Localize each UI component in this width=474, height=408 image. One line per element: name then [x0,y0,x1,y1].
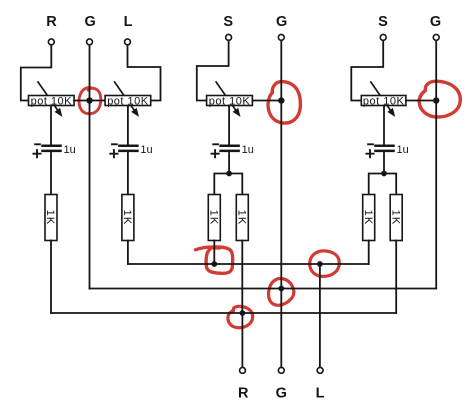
junction dot P4/G3 [433,97,439,103]
svg-text:L: L [316,385,325,401]
resistor R4 1K [236,195,249,241]
annotation red circle 3 (P4/G3 junction) [419,81,460,117]
junction dot C4 split [381,171,387,177]
junction dot P1/P2/G1 [86,97,92,103]
svg-text:1u: 1u [397,144,409,156]
potentiometer P4 pot 10K [361,82,406,117]
wire C2 down to R2 [127,152,129,194]
capacitor C1 1u [33,144,75,157]
wire R to pot P1 left [21,45,52,100]
wire G3 vertical down to ground bus [435,41,437,289]
annotation red circle 2 (P3/G2 junction) [268,82,300,124]
svg-text:1K: 1K [121,210,133,226]
svg-text:S: S [223,14,233,30]
svg-text:L: L [124,14,133,30]
svg-text:1u: 1u [64,144,76,156]
junction dot C3 split [226,171,232,177]
potentiometer P1 pot 10K [29,82,75,117]
wire G2 vertical full down to output G [280,41,282,367]
wire P1 right to junction [74,100,89,102]
potentiometer P3 pot 10K [207,82,253,117]
wire R2 bottom down to bus1 [127,241,129,265]
wire L output down [319,264,321,367]
junction dot P3/G2 [278,97,284,103]
wire P3 right to junction [252,100,281,102]
annotation red circle 6 (G2/bus2 junction) [269,279,294,306]
wire P1 wiper down to C1 [50,106,52,145]
svg-text:1K: 1K [362,210,374,226]
wire C3 down to T junction [228,152,230,173]
wire R5 bottom down to bus1 [368,241,370,265]
resistor R1 1K [44,195,57,241]
wire T bar section 3 [214,174,242,195]
svg-text:1u: 1u [242,144,254,156]
wire R3 bottom down to bus1 [213,241,215,265]
wire P4 right to junction [406,100,436,102]
wire S1 to pot P3 left [197,41,229,101]
svg-text:1u: 1u [140,144,152,156]
junction dot Rout/bus3 [240,310,246,316]
wire junction to pot P2 left [90,100,106,102]
annotation red circle 7 (Rout/bus3 junction) [228,306,253,327]
wire bus2 (ground) [90,288,437,290]
svg-text:S: S [378,14,388,30]
wire S2 to pot P4 left [351,41,383,101]
svg-text:G: G [276,14,287,30]
wire R1 bottom down to bus3 [50,241,52,314]
svg-text:G: G [276,385,287,401]
svg-text:1K: 1K [236,210,248,226]
node G (bottom output) [278,367,284,373]
junction dot R3/bus1 [211,261,217,267]
potentiometer P2 pot 10K [105,82,151,117]
wire L to pot P2 right [128,45,161,100]
annotation red circle 1 (P1/P2/G1 junction) [79,88,101,114]
capacitor C2 1u [110,144,152,157]
svg-text:G: G [430,14,441,30]
wire C1 down to R1 [50,152,52,194]
node L (bottom output) [317,367,323,373]
capacitor C4 1u [366,144,408,157]
wire bus1 (L mix) [128,263,369,265]
junction dot Lout/bus1 [317,261,323,267]
wire R output down [241,313,243,367]
wire P4 wiper down to C4 [383,106,385,145]
resistor R3 1K [208,195,221,241]
junction dot G2/bus2 [278,286,284,292]
svg-text:1K: 1K [389,210,401,226]
wire P2 wiper down to C2 [127,106,129,145]
node R (bottom output) [240,367,246,373]
resistor R2 1K [121,195,134,241]
resistor R5 1K [362,195,375,241]
wire bus3 (R mix) [51,312,396,314]
svg-text:1K: 1K [208,210,220,226]
wire R6 bottom down to bus3 [395,241,397,314]
svg-text:1K: 1K [44,210,56,226]
svg-text:G: G [85,14,96,30]
wire R4 bottom down to bus3 [241,241,243,314]
wire T bar section 4 [369,174,397,195]
svg-text:R: R [46,14,57,30]
wire P3 wiper down to C3 [228,106,230,145]
capacitor C3 1u [212,144,254,157]
annotation red circle 4 (R3/bus1 junction with tail) [196,247,216,250]
resistor R6 1K [389,195,402,241]
wire G1 vertical down to ground bus [89,45,91,288]
wire C4 down to T junction [383,152,385,173]
svg-text:R: R [238,385,249,401]
annotation red circle 5 (Lout/bus1 junction) [310,251,340,277]
